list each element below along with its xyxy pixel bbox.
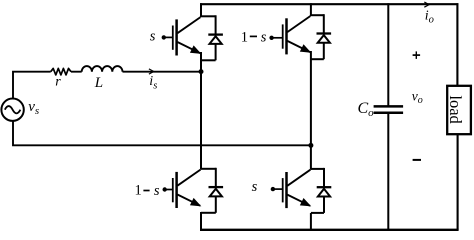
- label 1-s (gate of S3): [135, 183, 160, 199]
- svg-text:1: 1: [135, 183, 142, 199]
- wire S4 cell top horizontal: [311, 168, 324, 170]
- node: right leg midpoint junction: [308, 143, 313, 148]
- transistor S1 (IGBT): [173, 17, 201, 55]
- load box: [446, 86, 471, 134]
- wire capacitor bottom leg: [387, 114, 389, 230]
- wire left bridge leg top (rail to S1): [200, 3, 202, 17]
- label 1-s (gate of S2): [241, 30, 267, 46]
- svg-text:s: s: [154, 183, 160, 199]
- svg-text:r: r: [55, 74, 61, 89]
- wire S3 cell bottom horizontal: [201, 212, 216, 214]
- wire S1 cell top horizontal: [201, 15, 216, 17]
- wire S4 emitter to bottom rail: [310, 213, 312, 230]
- diode D2: [317, 14, 332, 59]
- wire S2 cell bottom horizontal: [311, 58, 324, 60]
- wire top dc rail: [200, 3, 458, 5]
- transistor S2 (IGBT): [283, 16, 311, 54]
- gate lead and dot of S3: [163, 187, 174, 191]
- transistor S3 (IGBT): [173, 170, 201, 208]
- wire bottom dc rail: [200, 229, 459, 231]
- wire S3 emitter to bottom rail: [200, 212, 202, 230]
- wire source bottom return to right leg midpoint: [13, 121, 311, 146]
- svg-text:load: load: [446, 95, 465, 124]
- wire S2 cell top horizontal: [311, 14, 324, 16]
- gate lead and dot of S1: [162, 35, 174, 39]
- current arrow is: [149, 69, 154, 74]
- wire load top leg: [456, 3, 458, 86]
- label - (output polarity): [413, 159, 421, 161]
- gate lead and dot of S2: [269, 36, 283, 40]
- wire S4 cell bottom horizontal: [311, 212, 324, 214]
- inductor L: [82, 66, 123, 72]
- wire S1 cell bottom horizontal: [201, 59, 216, 61]
- label + (output polarity): [413, 51, 421, 59]
- svg-text:s: s: [261, 30, 267, 46]
- wire capacitor top leg: [387, 3, 389, 105]
- gate lead and dot of S4: [271, 187, 284, 191]
- diode D1: [208, 15, 223, 60]
- svg-text:s: s: [150, 29, 156, 45]
- capacitor Co: [374, 106, 404, 112]
- wire right bridge leg middle (S2 emitter to S4 collector): [310, 51, 312, 170]
- current arrow io: [424, 2, 429, 7]
- wire S3 cell top horizontal: [201, 168, 216, 170]
- svg-text:1: 1: [241, 30, 248, 46]
- wire load bottom leg: [457, 134, 459, 230]
- transistor S4 (IGBT): [283, 170, 311, 208]
- resistor r: [51, 68, 71, 75]
- svg-text:s: s: [252, 179, 258, 195]
- diode D4: [317, 168, 332, 213]
- svg-text:L: L: [94, 75, 103, 91]
- wire right bridge leg top (rail to S2): [310, 3, 312, 16]
- diode D3: [209, 168, 224, 213]
- ac source vs: [1, 99, 23, 121]
- wire left bridge leg middle (S1 emitter to S3 collector): [200, 52, 202, 170]
- wire source top to bridge (with r, L in series): [13, 72, 201, 99]
- node: left leg midpoint junction: [199, 69, 204, 74]
